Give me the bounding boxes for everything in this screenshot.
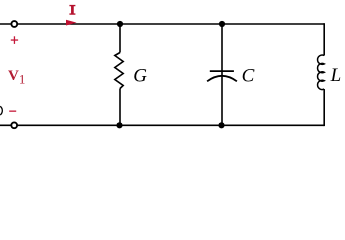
wire G branch bottom lead (119, 89, 121, 126)
node top C junction (219, 21, 225, 27)
svg-text:V: V (8, 68, 19, 84)
svg-text:G: G (133, 65, 147, 86)
wire bottom rail (0, 124, 324, 126)
terminal top-left (11, 21, 17, 27)
label I (69, 5, 75, 15)
plus sign (11, 36, 18, 44)
inductor L (318, 55, 325, 90)
svg-text:1: 1 (19, 71, 26, 86)
wire C branch (221, 24, 223, 125)
wire G branch top lead (119, 24, 121, 53)
wire right rail (inductor leads) (323, 23, 325, 55)
minus sign (9, 111, 16, 112)
capacitor C top plate (210, 70, 234, 72)
cropped source arc (0, 106, 2, 115)
current arrow (66, 20, 77, 26)
resistor G (115, 53, 123, 89)
node bottom C junction (218, 122, 224, 128)
svg-text:C: C (242, 66, 255, 87)
node top G junction (117, 21, 123, 27)
terminal bottom-left (11, 122, 17, 128)
svg-text:L: L (330, 65, 342, 86)
wire top rail (0, 23, 324, 25)
capacitor C curved plate (207, 76, 237, 82)
node bottom G junction (116, 122, 122, 128)
